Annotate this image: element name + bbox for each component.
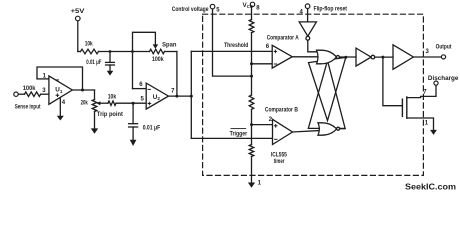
svg-text:10k: 10k (85, 40, 93, 47)
svg-text:+5V: +5V (71, 8, 86, 15)
svg-text:Sense input: Sense input (15, 103, 41, 110)
svg-text:Comparator B: Comparator B (265, 106, 298, 113)
svg-text:100k: 100k (152, 56, 164, 63)
svg-text:Flip-flop reset: Flip-flop reset (314, 6, 348, 13)
svg-text:Trigger: Trigger (230, 130, 248, 137)
svg-text:0.01 μF: 0.01 μF (143, 124, 161, 131)
svg-text:100k: 100k (23, 85, 36, 92)
svg-text:Threshold: Threshold (224, 42, 248, 49)
svg-text:Output: Output (436, 43, 452, 50)
svg-text:0.01 μF: 0.01 μF (86, 59, 101, 66)
svg-text:20k: 20k (81, 99, 89, 106)
svg-text:Control voltage: Control voltage (172, 6, 209, 13)
svg-text:Span: Span (162, 41, 176, 48)
svg-text:Trip point: Trip point (97, 111, 124, 118)
svg-text:Comparator A: Comparator A (267, 34, 299, 41)
svg-text:timer: timer (274, 158, 285, 165)
svg-text:10k: 10k (108, 93, 117, 100)
svg-text:Discharge: Discharge (428, 75, 459, 82)
svg-text:SeekIC.com: SeekIC.com (405, 183, 456, 192)
